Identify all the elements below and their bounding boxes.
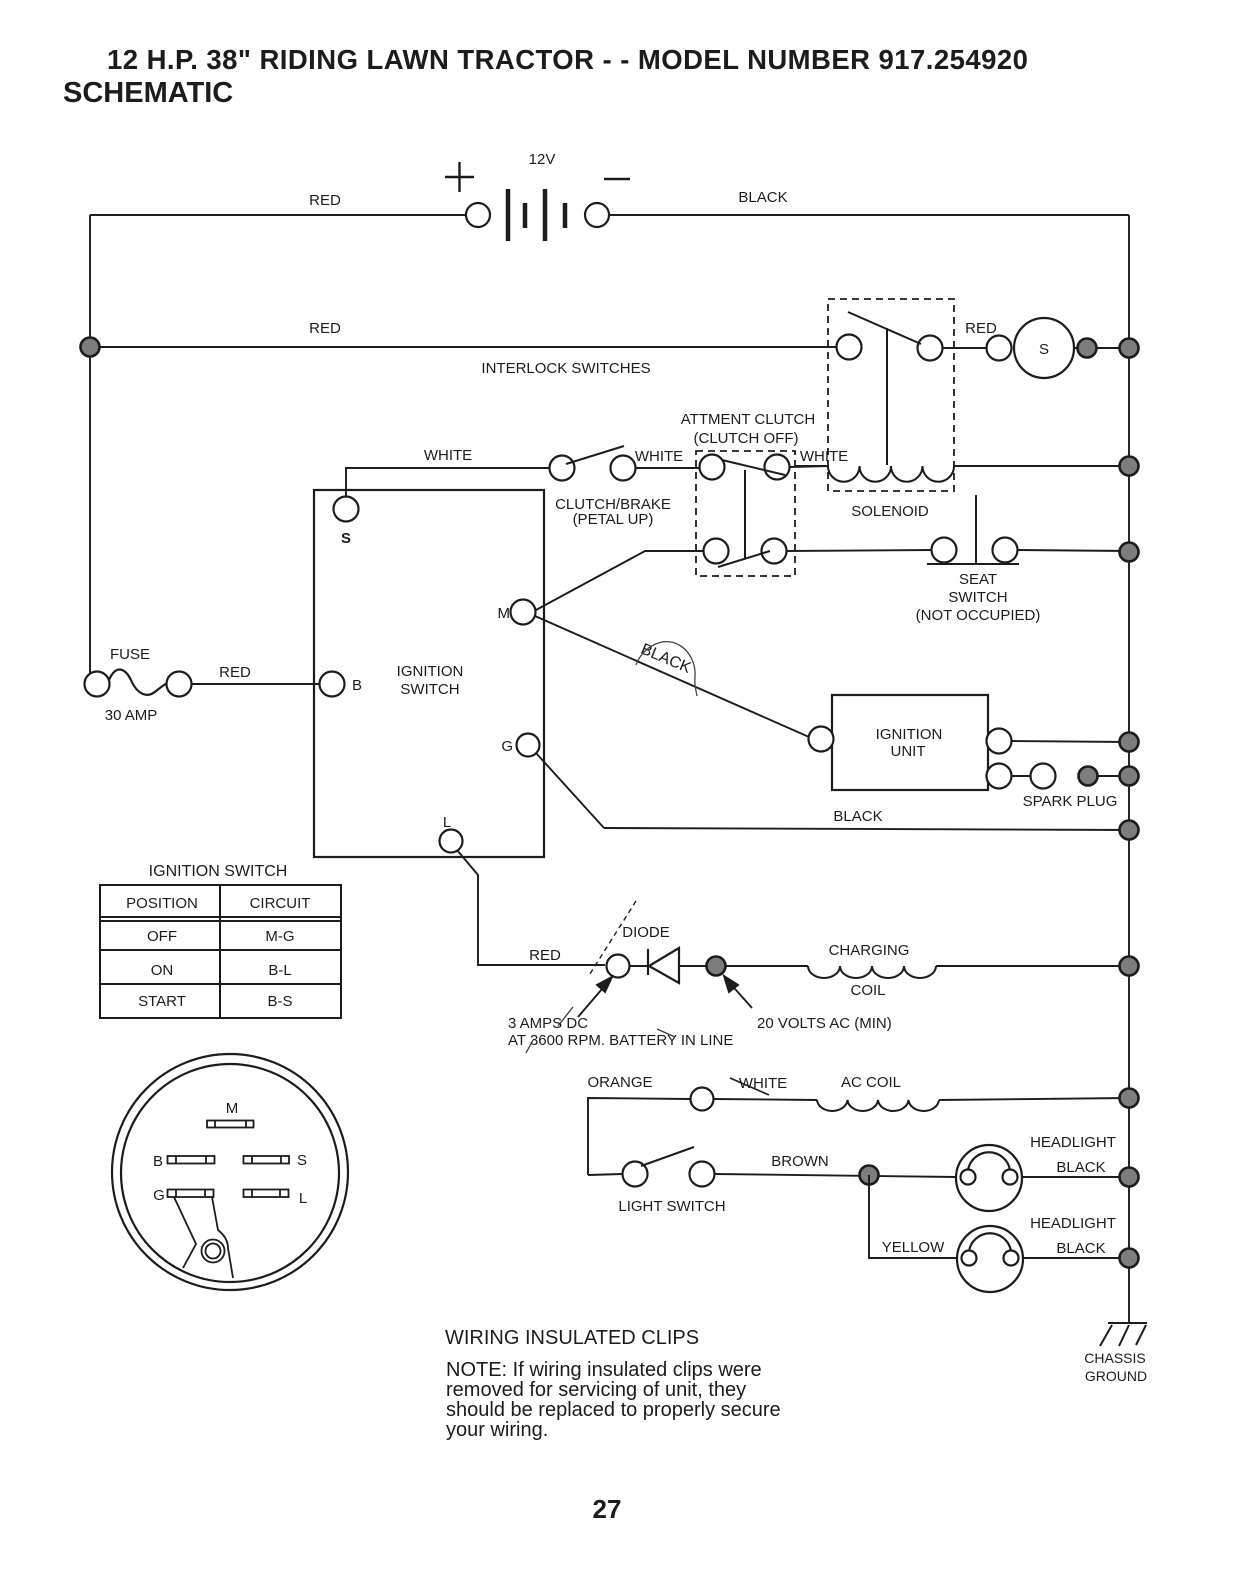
slot S bbox=[244, 1156, 290, 1164]
attment clutch upper blade bbox=[722, 460, 785, 475]
wire fuse to B bbox=[192, 683, 319, 685]
light switch blade bbox=[641, 1147, 694, 1166]
AC coil terminal circle bbox=[691, 1088, 714, 1111]
starter motor S bbox=[1014, 318, 1074, 378]
svg-text:IGNITION: IGNITION bbox=[876, 726, 943, 743]
AC coil bbox=[817, 1100, 939, 1111]
svg-text:S: S bbox=[341, 530, 351, 547]
slot G bbox=[168, 1190, 214, 1198]
svg-text:SCHEMATIC: SCHEMATIC bbox=[63, 77, 233, 109]
svg-text:RED: RED bbox=[309, 192, 341, 209]
terminal B bbox=[320, 672, 345, 697]
node brown junction bbox=[860, 1166, 879, 1185]
svg-text:DIODE: DIODE bbox=[622, 924, 670, 941]
svg-text:20 VOLTS AC (MIN): 20 VOLTS AC (MIN) bbox=[757, 1015, 892, 1032]
terminal L bbox=[440, 830, 463, 853]
diode D1 bbox=[648, 948, 679, 983]
node bus charging row bbox=[1120, 957, 1139, 976]
node 20V AC bbox=[707, 957, 726, 976]
node bus AC row bbox=[1120, 1089, 1139, 1108]
wire headlight1 to bus bbox=[1022, 1176, 1129, 1178]
starter terminal circle bbox=[987, 336, 1012, 361]
terminal G bbox=[517, 734, 540, 757]
node spark plug bbox=[1079, 767, 1098, 786]
node starter output bbox=[1078, 339, 1097, 358]
wire seat switch to bus bbox=[1018, 550, 1129, 551]
svg-text:B-L: B-L bbox=[268, 962, 291, 979]
ignition unit output terminal top bbox=[987, 729, 1012, 754]
svg-text:BLACK: BLACK bbox=[738, 189, 787, 206]
wire right ground bus vertical bbox=[1128, 215, 1130, 1323]
slot B bbox=[168, 1156, 215, 1164]
wire diode to node bbox=[679, 965, 808, 967]
attment clutch actuator bbox=[744, 470, 746, 559]
seat switch actuator bbox=[975, 495, 977, 563]
key switch connector outer circle bbox=[112, 1054, 348, 1290]
svg-text:M-G: M-G bbox=[265, 928, 294, 945]
fuse F1 bbox=[85, 670, 192, 697]
svg-text:B: B bbox=[352, 677, 362, 694]
svg-text:M: M bbox=[226, 1100, 239, 1117]
wire spark gap bbox=[1012, 775, 1030, 777]
wire attment lower right to seat switch bbox=[787, 550, 931, 551]
node junction left bus bbox=[81, 338, 100, 357]
node bus ignition row bbox=[1120, 733, 1139, 752]
svg-text:SEAT: SEAT bbox=[959, 571, 997, 588]
charging coil bbox=[808, 966, 936, 978]
svg-text:IGNITION: IGNITION bbox=[397, 663, 464, 680]
svg-text:WHITE: WHITE bbox=[424, 447, 472, 464]
terminal M bbox=[511, 600, 536, 625]
wire AC coil to bus bbox=[939, 1098, 1129, 1100]
svg-text:12 H.P. 38" RIDING LAWN TRACTO: 12 H.P. 38" RIDING LAWN TRACTOR - - MODE… bbox=[107, 44, 1028, 75]
key wiper bbox=[174, 1197, 233, 1278]
svg-text:HEADLIGHT: HEADLIGHT bbox=[1030, 1215, 1116, 1232]
wire spark to bus bbox=[1097, 775, 1129, 777]
svg-text:AT 3600 RPM. BATTERY IN LINE: AT 3600 RPM. BATTERY IN LINE bbox=[508, 1032, 733, 1049]
svg-text:SOLENOID: SOLENOID bbox=[851, 503, 929, 520]
wire left bus vertical bbox=[89, 215, 91, 674]
svg-text:M: M bbox=[498, 605, 511, 622]
node bus spark row bbox=[1120, 767, 1139, 786]
svg-text:L: L bbox=[443, 814, 451, 831]
svg-text:BLACK: BLACK bbox=[1056, 1159, 1105, 1176]
headlight 2 bbox=[957, 1226, 1023, 1292]
spark plug gap terminal bbox=[1031, 764, 1056, 789]
slot L bbox=[244, 1190, 289, 1198]
svg-text:CHARGING: CHARGING bbox=[829, 942, 910, 959]
svg-text:(PETAL UP): (PETAL UP) bbox=[573, 511, 654, 528]
wire starter to bus bbox=[1074, 347, 1129, 349]
svg-text:POSITION: POSITION bbox=[126, 895, 198, 912]
wire ORANGE row bbox=[588, 1098, 690, 1175]
svg-text:WHITE: WHITE bbox=[739, 1075, 787, 1092]
svg-text:S: S bbox=[1039, 341, 1049, 358]
svg-text:IGNITION SWITCH: IGNITION SWITCH bbox=[149, 863, 288, 880]
clutch/brake blade bbox=[566, 446, 624, 464]
wire down to headlight 2 bbox=[869, 1175, 956, 1258]
node bus solenoid row bbox=[1120, 457, 1139, 476]
terminal S bbox=[334, 497, 359, 522]
node bus headlight2 bbox=[1120, 1249, 1139, 1268]
wire headlight2 to bus bbox=[1023, 1257, 1129, 1259]
svg-text:RED: RED bbox=[219, 664, 251, 681]
svg-text:G: G bbox=[501, 738, 513, 755]
wire charging coil to bus bbox=[936, 965, 1129, 967]
swoosh mark bbox=[636, 642, 697, 696]
ignition unit output terminal bottom bbox=[987, 764, 1012, 789]
svg-text:WHITE: WHITE bbox=[635, 448, 683, 465]
wire M to attment lower left bbox=[536, 551, 703, 610]
svg-text:B-S: B-S bbox=[267, 993, 292, 1010]
svg-text:AC COIL: AC COIL bbox=[841, 1074, 901, 1091]
wire unit to bus bbox=[1012, 741, 1129, 742]
svg-text:RED: RED bbox=[309, 320, 341, 337]
svg-text:CIRCUIT: CIRCUIT bbox=[250, 895, 311, 912]
svg-text:your wiring.: your wiring. bbox=[446, 1419, 548, 1441]
svg-text:removed for servicing of unit,: removed for servicing of unit, they bbox=[446, 1379, 746, 1401]
svg-text:should be replaced to properly: should be replaced to properly secure bbox=[446, 1399, 781, 1421]
svg-text:ON: ON bbox=[151, 962, 174, 979]
svg-text:(CLUTCH OFF): (CLUTCH OFF) bbox=[694, 430, 799, 447]
chassis ground bbox=[1100, 1323, 1147, 1346]
svg-text:BROWN: BROWN bbox=[771, 1153, 829, 1170]
arrow to diode terminal bbox=[578, 977, 612, 1017]
svg-text:UNIT: UNIT bbox=[891, 743, 926, 760]
svg-text:HEADLIGHT: HEADLIGHT bbox=[1030, 1134, 1116, 1151]
svg-text:B: B bbox=[153, 1153, 163, 1170]
light switch contacts bbox=[623, 1162, 715, 1187]
wire interlock to starter bbox=[943, 347, 986, 349]
interlock switch contacts bbox=[837, 335, 943, 361]
svg-text:START: START bbox=[138, 993, 186, 1010]
attment clutch lower contacts bbox=[704, 539, 787, 564]
svg-text:WHITE: WHITE bbox=[800, 448, 848, 465]
ignition unit input terminal bbox=[809, 727, 834, 752]
wire RED battery positive bbox=[90, 214, 466, 216]
seat switch base line bbox=[927, 563, 1019, 565]
interlock switch blade bbox=[848, 312, 921, 344]
annotation stray slash marks bbox=[526, 1007, 675, 1053]
svg-text:L: L bbox=[299, 1190, 307, 1207]
wire light switch to headlight bbox=[715, 1174, 956, 1177]
interlock switches dashed box bbox=[828, 299, 954, 491]
svg-text:LIGHT SWITCH: LIGHT SWITCH bbox=[618, 1198, 725, 1215]
node bus headlight1 bbox=[1120, 1168, 1139, 1187]
seat switch contacts bbox=[932, 538, 1018, 563]
svg-text:SPARK PLUG: SPARK PLUG bbox=[1023, 793, 1118, 810]
headlight 1 bbox=[956, 1145, 1022, 1211]
svg-text:INTERLOCK SWITCHES: INTERLOCK SWITCHES bbox=[481, 360, 650, 377]
wire circle to AC coil bbox=[714, 1099, 817, 1100]
wire G to black row bbox=[536, 753, 604, 828]
svg-text:ORANGE: ORANGE bbox=[587, 1074, 652, 1091]
wire attment top right to solenoid bbox=[790, 466, 828, 467]
svg-text:RED: RED bbox=[529, 947, 561, 964]
svg-text:G: G bbox=[153, 1187, 165, 1204]
wire BLACK battery negative bbox=[609, 214, 1129, 216]
svg-text:OFF: OFF bbox=[147, 928, 177, 945]
svg-text:RED: RED bbox=[965, 320, 997, 337]
svg-text:COIL: COIL bbox=[850, 982, 885, 999]
node bus seat row bbox=[1120, 543, 1139, 562]
ignition switch box bbox=[314, 490, 544, 857]
svg-text:NOTE: If wiring insulated clip: NOTE: If wiring insulated clips were bbox=[446, 1359, 762, 1381]
wire RED interlock row bbox=[90, 346, 836, 348]
arrow to 20V node bbox=[724, 976, 752, 1008]
svg-text:GROUND: GROUND bbox=[1085, 1368, 1147, 1384]
node bus interlock row bbox=[1120, 339, 1139, 358]
svg-text:BLACK: BLACK bbox=[833, 808, 882, 825]
wire to light switch bbox=[588, 1174, 622, 1175]
svg-text:S: S bbox=[297, 1152, 307, 1169]
svg-text:(NOT OCCUPIED): (NOT OCCUPIED) bbox=[916, 607, 1041, 624]
wire WHITE from S terminal bbox=[346, 468, 562, 497]
key switch connector inner circle bbox=[121, 1064, 339, 1282]
wire clutch to attment bbox=[636, 467, 699, 469]
svg-text:12V: 12V bbox=[529, 151, 556, 168]
svg-text:SWITCH: SWITCH bbox=[948, 589, 1007, 606]
svg-text:SWITCH: SWITCH bbox=[400, 681, 459, 698]
svg-text:ATTMENT CLUTCH: ATTMENT CLUTCH bbox=[681, 411, 815, 428]
svg-text:YELLOW: YELLOW bbox=[882, 1239, 945, 1256]
node bus black row bbox=[1120, 821, 1139, 840]
diode terminal circle bbox=[607, 955, 630, 978]
svg-text:3 AMPS DC: 3 AMPS DC bbox=[508, 1015, 588, 1032]
wire BLACK M to ignition unit bbox=[535, 616, 809, 737]
svg-text:FUSE: FUSE bbox=[110, 646, 150, 663]
attment clutch lower blade bbox=[718, 551, 770, 567]
wire BLACK row horizontal bbox=[604, 828, 1129, 830]
ignition switch table bbox=[100, 885, 341, 1018]
slot M bbox=[207, 1121, 254, 1128]
svg-text:27: 27 bbox=[593, 1494, 622, 1524]
wire circle to diode bbox=[630, 965, 648, 967]
svg-text:30 AMP: 30 AMP bbox=[105, 707, 158, 724]
attment clutch dashed box bbox=[696, 451, 795, 576]
battery B1 bbox=[445, 162, 630, 241]
svg-text:WIRING INSULATED CLIPS: WIRING INSULATED CLIPS bbox=[445, 1327, 699, 1349]
attment clutch upper contacts bbox=[700, 455, 790, 480]
wire L to diode row bbox=[457, 850, 605, 965]
clutch/brake switch contacts bbox=[550, 456, 636, 481]
ignition unit box bbox=[832, 695, 988, 790]
interlock actuator line bbox=[886, 328, 888, 465]
svg-text:CHASSIS: CHASSIS bbox=[1084, 1350, 1145, 1366]
dashed annotation line bbox=[588, 901, 636, 977]
solenoid coil bbox=[795, 466, 1129, 482]
svg-text:BLACK: BLACK bbox=[1056, 1240, 1105, 1257]
